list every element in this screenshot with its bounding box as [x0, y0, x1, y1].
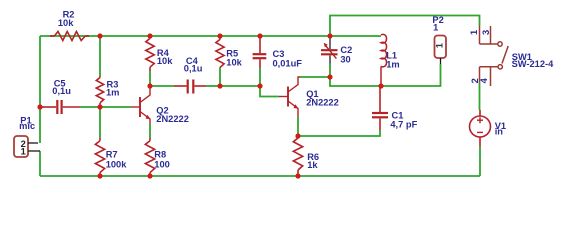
junction node R7 bottom	[97, 173, 102, 178]
svg-text:C3: C3	[273, 49, 285, 59]
resistor R5	[216, 36, 224, 68]
svg-text:mic: mic	[19, 121, 35, 131]
svg-text:1k: 1k	[307, 160, 318, 170]
junction node R4 top	[147, 33, 152, 38]
wire C4 left lead green	[152, 85, 174, 87]
wire Q1 collector to C2 node	[300, 76, 330, 78]
resistor R8	[145, 138, 154, 176]
junction node L1/C1	[378, 83, 383, 88]
wire C1 return line to R6 node	[298, 130, 380, 136]
svg-text:100k: 100k	[106, 160, 128, 170]
wire R7 top lead	[99, 107, 101, 138]
svg-text:C2: C2	[340, 45, 352, 55]
svg-text:1: 1	[435, 43, 445, 48]
svg-text:1: 1	[21, 146, 26, 156]
svg-text:10k: 10k	[157, 56, 173, 66]
junction node C3 top	[257, 33, 262, 38]
junction node Q1 emitter/R6	[295, 133, 300, 138]
resistor R4	[146, 36, 154, 71]
wire left rail from R2 to P1 pin2	[39, 36, 41, 143]
junction node R6 bottom	[295, 173, 300, 178]
svg-text:30: 30	[340, 55, 350, 65]
svg-text:2N2222: 2N2222	[306, 97, 339, 107]
transistor Q2	[131, 88, 150, 124]
wire Q1 emitter to R6 node	[297, 117, 299, 136]
svg-text:0,1u: 0,1u	[52, 86, 71, 96]
wire switch pin2 to V1	[479, 82, 481, 110]
capacitor C1	[372, 88, 388, 130]
wire C3 bottom lead green	[259, 68, 261, 86]
capacitor C5	[41, 100, 80, 114]
capacitor C4	[174, 80, 206, 94]
svg-text:0,1u: 0,1u	[184, 63, 203, 73]
svg-text:in: in	[495, 127, 504, 137]
svg-text:1: 1	[433, 23, 438, 33]
wire C2 node down and right to L1 bottom	[330, 77, 381, 86]
wire V1 bottom to rail	[479, 147, 481, 177]
svg-text:0,01uF: 0,01uF	[273, 59, 303, 69]
connector P1	[14, 136, 28, 157]
wire R3 top lead	[99, 36, 101, 76]
wire C4 right to R5 node	[206, 85, 220, 87]
wire P1 pin1 down to bottom rail	[39, 151, 41, 176]
junction node R8 bottom	[147, 173, 152, 178]
wire node R5 to C3 node	[220, 85, 260, 87]
wire C3 node down to Q1 base	[260, 86, 279, 97]
svg-text:1m: 1m	[386, 60, 399, 70]
svg-text:2N2222: 2N2222	[156, 114, 189, 124]
svg-text:1: 1	[469, 30, 479, 35]
resistor R3	[96, 76, 103, 106]
wire mid rail y36	[40, 35, 381, 37]
voltage source V1	[470, 110, 491, 147]
svg-text:R7: R7	[106, 150, 118, 160]
variable capacitor C2	[329, 37, 331, 64]
junction node R5 top	[217, 33, 222, 38]
svg-text:10k: 10k	[226, 57, 242, 67]
junction node C3 bottom	[257, 83, 262, 88]
junction node R3/R7/Q2 base	[97, 104, 102, 109]
wire C5 to R3 node	[80, 106, 100, 108]
wire R4 bottom to C4 node	[149, 71, 151, 86]
junction node R5/C4	[217, 83, 222, 88]
wire R5 bottom lead	[219, 68, 221, 86]
wire top rail y15 with drop at x330	[330, 16, 480, 37]
svg-text:1m: 1m	[106, 88, 119, 98]
connector P2	[435, 36, 447, 59]
transistor Q1	[279, 77, 300, 117]
switch SW1	[480, 26, 509, 87]
wire C2 bottom green	[329, 64, 331, 78]
junction node C2 bottom	[327, 74, 332, 79]
junction node Q2 collector	[147, 83, 152, 88]
svg-text:SW-212-4: SW-212-4	[512, 59, 554, 69]
junction node R2/R3	[97, 33, 102, 38]
junction node C2 top	[327, 33, 332, 38]
junction node C5 left	[37, 104, 42, 109]
wire Q2 emitter to R8	[149, 124, 151, 138]
resistor R2	[50, 32, 89, 41]
svg-text:4,7 pF: 4,7 pF	[390, 120, 417, 130]
resistor R7	[95, 138, 104, 176]
wire bottom rail	[40, 175, 480, 177]
resistor R6	[293, 136, 302, 176]
wire L1 bottom to P2 drop	[381, 64, 441, 86]
svg-text:R8: R8	[154, 150, 166, 160]
svg-text:100: 100	[154, 160, 170, 170]
inductor L1	[381, 34, 387, 66]
svg-text:3: 3	[481, 30, 491, 35]
svg-text:10k: 10k	[58, 18, 74, 28]
capacitor C3	[253, 36, 267, 68]
wire node to Q2 base	[100, 106, 131, 108]
svg-text:4: 4	[479, 77, 489, 83]
